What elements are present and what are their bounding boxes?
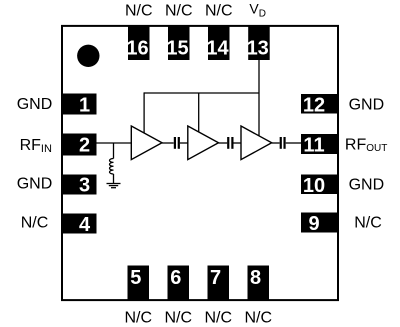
pin 1 [61,94,97,117]
power rail [144,92,259,94]
svg-text:RFIN: RFIN [20,137,52,155]
wire bias feed amp1 [143,92,145,133]
svg-text:3: 3 [79,175,90,197]
svg-text:10: 10 [303,175,325,197]
capacitor C1 [175,137,179,149]
svg-text:N/C: N/C [125,2,153,19]
svg-text:16: 16 [126,38,148,60]
pin 6 [168,266,190,301]
pin 4 [61,214,97,237]
svg-text:9: 9 [308,213,319,235]
wire amp2 to C2 [219,142,228,144]
svg-text:RFOUT: RFOUT [345,136,387,154]
amplifier A2 [188,126,219,160]
pin 5 [128,266,150,301]
svg-text:6: 6 [170,267,181,289]
svg-text:N/C: N/C [354,215,382,232]
svg-text:11: 11 [303,135,324,157]
svg-text:N/C: N/C [165,2,193,19]
svg-text:GND: GND [17,176,53,193]
svg-text:2: 2 [79,135,90,157]
svg-text:N/C: N/C [124,309,152,326]
ground [107,184,121,188]
svg-text:4: 4 [79,214,91,236]
svg-text:N/C: N/C [205,2,233,19]
wire amp3 to C3 [272,142,280,144]
pin 10 [301,175,338,198]
svg-text:14: 14 [206,38,229,60]
svg-text:13: 13 [247,38,269,60]
amplifier A1 [131,126,162,160]
pin 3 [61,175,97,197]
pin 9 [301,213,338,236]
package outline [62,26,338,300]
svg-text:7: 7 [210,267,221,289]
pin 7 [208,266,230,301]
pin 13 [247,27,270,61]
svg-text:N/C: N/C [164,309,192,326]
pin 16 [126,27,149,61]
svg-text:12: 12 [303,95,325,117]
wire C2 to amp3 input [234,142,242,144]
pin 11 [301,134,338,157]
pin 1 indicator dot [77,45,99,67]
wire bias feed amp2 [198,93,200,132]
pin 14 [206,27,229,61]
svg-text:GND: GND [349,97,385,114]
pin 15 [166,27,189,61]
pin 2 [61,134,97,157]
amplifier A3 [241,126,272,160]
pin 12 [301,94,338,117]
svg-text:5: 5 [130,267,141,289]
svg-text:15: 15 [166,38,188,60]
svg-text:1: 1 [79,95,90,117]
svg-text:N/C: N/C [21,215,49,232]
pin 8 [248,266,270,301]
svg-text:N/C: N/C [204,309,232,326]
svg-text:N/C: N/C [244,309,272,326]
svg-text:8: 8 [250,267,261,289]
inductor L1 shunt [109,143,113,184]
capacitor C3 [281,137,285,149]
svg-text:GND: GND [17,96,53,113]
svg-text:VD: VD [249,0,266,19]
svg-text:GND: GND [349,177,385,194]
wire VD from pin13 down [258,60,260,136]
capacitor C2 [228,137,232,149]
wire C1 to amp2 input [180,142,188,144]
wire C3 to pin11 [286,142,301,144]
wire pin2 to amp1 input [97,142,132,144]
wire amp1 to C1 [162,142,174,144]
